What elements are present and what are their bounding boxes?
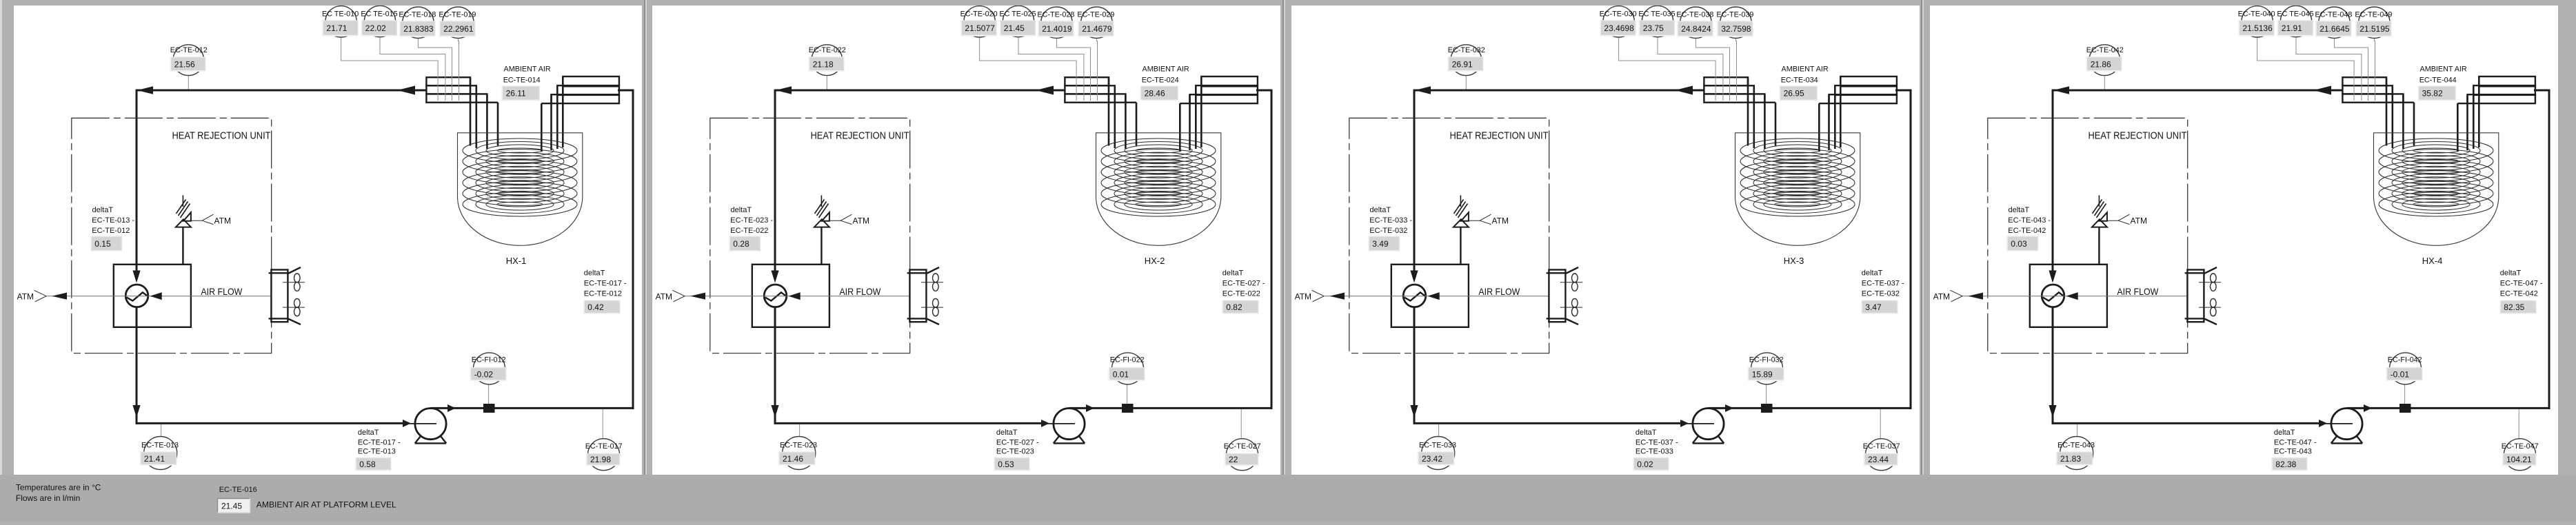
instrument bubble EC-TE-030 [1603, 6, 1634, 37]
panel 1: heat rejection unit HX-1 [14, 6, 642, 475]
svg-text:22: 22 [1229, 455, 1238, 464]
panel 3: heat rejection unit HX-3 [1291, 6, 1920, 475]
svg-text:EC TE-010: EC TE-010 [322, 10, 359, 19]
svg-text:26.91: 26.91 [1452, 59, 1473, 69]
svg-text:21.98: 21.98 [590, 455, 611, 464]
value box EC-FI-012 [470, 368, 506, 381]
svg-text:82.38: 82.38 [2275, 460, 2296, 469]
value box deltaT-right [1862, 301, 1898, 314]
svg-text:0.53: 0.53 [998, 460, 1014, 469]
value box EC-TE-029 [1078, 21, 1114, 37]
svg-text:3.49: 3.49 [1372, 239, 1389, 249]
svg-text:23.75: 23.75 [1643, 23, 1664, 33]
svg-text:EC-TE-012: EC-TE-012 [92, 227, 130, 235]
svg-text:ATM: ATM [2131, 216, 2147, 226]
svg-text:AMBIENT AIR: AMBIENT AIR [1782, 65, 1829, 73]
value box deltaT-left [91, 236, 122, 251]
instrument bubble EC-FI-022 [1112, 353, 1144, 384]
svg-text:EC-TE-020: EC-TE-020 [960, 10, 998, 19]
instrument bubble EC-TE-033 [1422, 437, 1455, 470]
svg-text:EC-TE-028: EC-TE-028 [1037, 11, 1074, 19]
instrument bubble EC-TE-039 [1720, 7, 1751, 38]
value box EC-TE-034 [1780, 86, 1817, 100]
svg-text:28.46: 28.46 [1145, 89, 1165, 99]
panel divider groove [1921, 0, 1922, 522]
svg-text:EC-TE-023 -: EC-TE-023 - [730, 216, 773, 225]
svg-text:15.89: 15.89 [1752, 369, 1773, 379]
instrument bubble EC-TE-047 [2504, 439, 2536, 471]
svg-text:deltaT: deltaT [1862, 269, 1883, 278]
svg-text:EC-FI-012: EC-FI-012 [472, 356, 506, 364]
value box EC-TE-012 [170, 57, 205, 71]
svg-text:EC-TE-032: EC-TE-032 [1369, 227, 1407, 235]
value box deltaT-right [1222, 301, 1258, 314]
svg-text:35.82: 35.82 [2422, 89, 2443, 99]
value box EC-FI-032 [1748, 368, 1784, 381]
svg-text:21.83: 21.83 [2060, 454, 2081, 464]
svg-text:21.56: 21.56 [174, 59, 195, 69]
value box EC TE-035 [1639, 21, 1674, 36]
value box EC-TE-027 [1225, 453, 1258, 465]
svg-text:21.4679: 21.4679 [1082, 24, 1112, 34]
instrument bubble EC-TE-049 [2359, 7, 2390, 38]
svg-text:AIR FLOW: AIR FLOW [839, 286, 881, 297]
svg-text:EC-TE-022: EC-TE-022 [730, 227, 768, 235]
value box deltaT-right [2500, 301, 2536, 314]
svg-text:21.45: 21.45 [221, 502, 242, 511]
svg-text:21.46: 21.46 [783, 454, 803, 464]
instrument bubble EC-TE-020 [964, 6, 995, 37]
svg-text:0.82: 0.82 [1226, 302, 1242, 312]
value box EC-TE-030 [1600, 21, 1636, 36]
value box EC TE-015 [361, 21, 396, 36]
svg-text:0.42: 0.42 [587, 302, 604, 312]
instrument bubble EC-TE-038 [1680, 7, 1711, 38]
svg-text:ATM: ATM [656, 291, 672, 301]
svg-text:EC-TE-013: EC-TE-013 [141, 442, 179, 450]
svg-text:21.86: 21.86 [2091, 59, 2111, 69]
panel 4: heat rejection unit HX-4 [1930, 6, 2558, 475]
value box EC-TE-017 [587, 453, 620, 465]
instrument bubble EC-TE-013 [144, 437, 177, 470]
svg-text:82.35: 82.35 [2504, 302, 2524, 312]
svg-text:23.4698: 23.4698 [1604, 23, 1634, 33]
value box EC-TE-037 [1864, 453, 1898, 465]
instrument bubble EC-TE-012 [173, 45, 204, 76]
svg-text:AIR FLOW: AIR FLOW [1478, 286, 1520, 297]
svg-text:HEAT REJECTION UNIT: HEAT REJECTION UNIT [2089, 130, 2187, 142]
svg-text:EC-TE-017 -: EC-TE-017 - [584, 280, 627, 288]
instrument bubble EC-TE-018 [403, 7, 434, 38]
svg-text:21.8383: 21.8383 [403, 24, 434, 34]
svg-text:-0.01: -0.01 [2391, 369, 2410, 379]
svg-text:0.03: 0.03 [2011, 239, 2027, 249]
svg-text:EC-TE-017 -: EC-TE-017 - [358, 438, 401, 446]
svg-text:EC-TE-034: EC-TE-034 [1781, 76, 1818, 84]
svg-text:HX-4: HX-4 [2422, 256, 2443, 266]
value box EC-TE-038 [1678, 21, 1713, 37]
svg-text:EC-TE-019: EC-TE-019 [439, 11, 476, 19]
svg-text:104.21: 104.21 [2506, 455, 2532, 464]
value box deltaT-bottom [356, 458, 391, 471]
svg-text:EC-TE-032: EC-TE-032 [1862, 290, 1900, 298]
svg-text:HX-2: HX-2 [1145, 256, 1165, 266]
svg-text:24.8424: 24.8424 [1681, 24, 1711, 34]
svg-text:EC-TE-014: EC-TE-014 [503, 76, 541, 84]
svg-text:deltaT: deltaT [584, 269, 605, 278]
instrument bubble EC-TE-022 [812, 45, 843, 76]
instrument bubble EC-TE-028 [1041, 7, 1072, 38]
value box EC-TE-044 [2418, 86, 2455, 100]
value box EC-TE-033 [1418, 452, 1454, 465]
svg-text:ATM: ATM [853, 216, 869, 226]
svg-text:21.5077: 21.5077 [965, 23, 995, 33]
svg-text:deltaT: deltaT [2500, 269, 2522, 278]
instrument bubble EC-TE-043 [2060, 437, 2093, 470]
svg-text:26.11: 26.11 [506, 89, 526, 99]
svg-text:EC-TE-038: EC-TE-038 [1676, 11, 1713, 19]
instrument bubble EC-TE-023 [783, 437, 816, 470]
svg-text:0.02: 0.02 [1637, 460, 1653, 469]
svg-text:EC-TE-039: EC-TE-039 [1716, 11, 1753, 19]
svg-text:EC TE-035: EC TE-035 [1638, 10, 1675, 19]
svg-text:22.2961: 22.2961 [443, 24, 474, 34]
svg-text:23.44: 23.44 [1868, 455, 1889, 464]
svg-text:EC-TE-027 -: EC-TE-027 - [1222, 280, 1265, 288]
svg-text:EC-TE-033 -: EC-TE-033 - [1369, 216, 1412, 225]
value box EC-TE-028 [1038, 21, 1074, 37]
svg-text:26.95: 26.95 [1784, 89, 1804, 99]
svg-text:0.28: 0.28 [733, 239, 749, 249]
svg-text:ATM: ATM [214, 216, 231, 226]
instrument bubble EC-TE-017 [588, 439, 620, 471]
value box deltaT-bottom [1633, 458, 1669, 471]
svg-text:21.5136: 21.5136 [2242, 23, 2273, 33]
svg-text:ATM: ATM [17, 291, 34, 301]
left window edge highlight [0, 0, 2, 522]
svg-text:EC-TE-013: EC-TE-013 [358, 448, 396, 456]
svg-text:HX-3: HX-3 [1784, 256, 1804, 266]
svg-text:HEAT REJECTION UNIT: HEAT REJECTION UNIT [811, 130, 909, 142]
svg-text:deltaT: deltaT [92, 206, 114, 214]
svg-text:HEAT REJECTION UNIT: HEAT REJECTION UNIT [172, 130, 271, 142]
svg-text:EC-TE-024: EC-TE-024 [1142, 76, 1179, 84]
svg-text:EC-TE-029: EC-TE-029 [1077, 11, 1114, 19]
value box EC TE-045 [2277, 21, 2313, 36]
svg-text:HEAT REJECTION UNIT: HEAT REJECTION UNIT [1450, 130, 1549, 142]
instrument bubble EC-TE-019 [443, 7, 474, 38]
instrument bubble EC-TE-042 [2089, 45, 2120, 76]
svg-text:23.42: 23.42 [1422, 454, 1442, 464]
svg-text:EC-TE-037 -: EC-TE-037 - [1862, 280, 1904, 288]
bottom note strip [0, 475, 2576, 522]
svg-text:AIR FLOW: AIR FLOW [2117, 286, 2159, 297]
svg-text:deltaT: deltaT [1222, 269, 1244, 278]
svg-text:EC-FI-022: EC-FI-022 [1110, 356, 1145, 364]
svg-text:3.47: 3.47 [1865, 302, 1882, 312]
value box EC-TE-039 [1718, 21, 1753, 37]
instrument bubble EC-FI-012 [474, 353, 505, 384]
instrument bubble EC TE-035 [1642, 6, 1673, 37]
svg-text:EC-TE-023: EC-TE-023 [996, 448, 1034, 456]
instrument bubble EC-TE-048 [2319, 7, 2350, 38]
svg-text:EC-TE-047 -: EC-TE-047 - [2274, 438, 2317, 446]
instrument bubble EC TE-010 [325, 6, 356, 37]
svg-text:EC TE-045: EC TE-045 [2277, 10, 2313, 19]
svg-text:EC-TE-023: EC-TE-023 [780, 442, 817, 450]
instrument bubble EC TE-015 [364, 6, 395, 37]
value box deltaT-right [584, 301, 620, 314]
svg-text:deltaT: deltaT [2274, 429, 2295, 437]
svg-text:32.7598: 32.7598 [1721, 24, 1751, 34]
value box EC-TE-047 [2503, 453, 2536, 465]
svg-text:AMBIENT AIR: AMBIENT AIR [504, 65, 551, 73]
svg-text:0.15: 0.15 [94, 239, 111, 249]
value box EC-TE-014 [502, 86, 539, 100]
svg-text:AIR FLOW: AIR FLOW [201, 286, 243, 297]
panel 2: heat rejection unit HX-2 [652, 6, 1280, 475]
svg-text:EC-TE-022: EC-TE-022 [1222, 290, 1260, 298]
svg-text:EC-TE-012: EC-TE-012 [584, 290, 622, 298]
svg-text:EC-FI-032: EC-FI-032 [1749, 356, 1784, 364]
value box EC-TE-020 [961, 21, 996, 36]
panel divider groove [1282, 0, 1284, 522]
value box EC-TE-043 [2057, 452, 2093, 465]
value box EC-TE-032 [1448, 57, 1483, 71]
instrument bubble EC-TE-032 [1451, 45, 1482, 76]
svg-text:0.58: 0.58 [359, 460, 376, 469]
svg-text:deltaT: deltaT [731, 206, 752, 214]
svg-text:EC-TE-037 -: EC-TE-037 - [1636, 438, 1678, 446]
instrument bubble EC-TE-040 [2242, 6, 2273, 37]
value box deltaT-bottom [994, 458, 1029, 471]
svg-text:EC-TE-043: EC-TE-043 [2057, 442, 2095, 450]
svg-text:EC-TE-018: EC-TE-018 [399, 11, 436, 19]
svg-text:EC-TE-043 -: EC-TE-043 - [2008, 216, 2051, 225]
svg-text:EC-TE-042: EC-TE-042 [2086, 46, 2124, 54]
svg-text:deltaT: deltaT [2009, 206, 2030, 214]
svg-text:AMBIENT AIR: AMBIENT AIR [1143, 65, 1189, 73]
svg-text:Temperatures are in °C: Temperatures are in °C [16, 483, 101, 493]
value box EC-TE-013 [141, 452, 177, 465]
svg-text:Flows are in l/min: Flows are in l/min [16, 493, 80, 503]
svg-text:ATM: ATM [1933, 291, 1950, 301]
svg-text:EC-TE-042: EC-TE-042 [2500, 290, 2538, 298]
svg-text:EC-TE-040: EC-TE-040 [2238, 10, 2275, 19]
value box EC-FI-042 [2386, 368, 2422, 381]
svg-text:EC-TE-017: EC-TE-017 [585, 442, 623, 451]
instrument bubble EC-FI-042 [2390, 353, 2422, 384]
svg-text:21.45: 21.45 [1004, 23, 1025, 33]
value box EC-TE-023 [779, 452, 815, 465]
value box EC TE-010 [323, 21, 358, 36]
svg-text:EC-TE-042: EC-TE-042 [2008, 227, 2046, 235]
svg-text:EC TE-025: EC TE-025 [999, 10, 1036, 19]
svg-text:EC TE-015: EC TE-015 [361, 10, 397, 19]
svg-text:22.02: 22.02 [365, 23, 386, 33]
svg-text:deltaT: deltaT [358, 429, 379, 437]
svg-text:EC-TE-044: EC-TE-044 [2419, 76, 2457, 84]
value box deltaT-bottom [2272, 458, 2307, 471]
svg-text:EC-TE-047: EC-TE-047 [2502, 442, 2539, 451]
svg-text:EC-TE-033: EC-TE-033 [1419, 442, 1456, 450]
value box EC-TE-022 [809, 57, 844, 71]
svg-text:EC-TE-013 -: EC-TE-013 - [92, 216, 134, 225]
svg-text:EC-TE-030: EC-TE-030 [1600, 10, 1637, 19]
svg-text:21.41: 21.41 [144, 454, 165, 464]
value box EC-TE-048 [2316, 21, 2351, 37]
value box EC-TE-049 [2356, 21, 2391, 37]
instrument bubble EC-TE-029 [1081, 7, 1112, 38]
svg-text:21.5195: 21.5195 [2359, 24, 2390, 34]
svg-text:ATM: ATM [1492, 216, 1509, 226]
svg-text:deltaT: deltaT [1636, 429, 1657, 437]
value box EC-TE-019 [440, 21, 475, 37]
svg-text:21.18: 21.18 [813, 59, 834, 69]
instrument bubble EC TE-045 [2280, 6, 2311, 37]
svg-text:deltaT: deltaT [1370, 206, 1391, 214]
svg-text:EC-TE-027 -: EC-TE-027 - [996, 438, 1039, 446]
instrument bubble EC-FI-032 [1751, 353, 1783, 384]
value box EC-TE-042 [2086, 57, 2122, 71]
value box EC-TE-016 [218, 499, 250, 513]
svg-text:ATM: ATM [1295, 291, 1311, 301]
instrument bubble EC-TE-037 [1866, 439, 1898, 471]
value box EC-TE-024 [1140, 86, 1178, 100]
svg-text:EC-TE-049: EC-TE-049 [2355, 11, 2392, 19]
instrument bubble EC TE-025 [1003, 6, 1034, 37]
svg-text:EC-TE-037: EC-TE-037 [1863, 442, 1900, 451]
svg-text:EC-TE-022: EC-TE-022 [809, 46, 846, 54]
svg-text:21.6645: 21.6645 [2320, 24, 2350, 34]
svg-text:21.4019: 21.4019 [1042, 24, 1072, 34]
value box EC-TE-018 [400, 21, 435, 37]
svg-text:HX-1: HX-1 [506, 256, 527, 266]
svg-text:EC-TE-043: EC-TE-043 [2274, 448, 2312, 456]
svg-text:EC-TE-012: EC-TE-012 [170, 46, 208, 54]
svg-text:EC-TE-033: EC-TE-033 [1636, 448, 1673, 456]
value box deltaT-left [729, 236, 761, 251]
value box deltaT-left [2007, 236, 2038, 251]
svg-text:EC-TE-048: EC-TE-048 [2315, 11, 2352, 19]
svg-text:21.91: 21.91 [2282, 23, 2302, 33]
value box EC-TE-040 [2239, 21, 2274, 36]
panel divider groove [644, 0, 645, 522]
svg-text:deltaT: deltaT [996, 429, 1018, 437]
svg-text:AMBIENT AIR: AMBIENT AIR [2420, 65, 2467, 73]
value box EC-FI-022 [1109, 368, 1145, 381]
svg-text:EC-TE-027: EC-TE-027 [1224, 442, 1261, 451]
svg-text:-0.02: -0.02 [474, 369, 494, 379]
value box EC TE-025 [1000, 21, 1035, 36]
instrument bubble EC-TE-027 [1227, 439, 1258, 471]
svg-text:21.71: 21.71 [326, 23, 347, 33]
svg-text:EC-TE-032: EC-TE-032 [1448, 46, 1485, 54]
svg-text:0.01: 0.01 [1113, 369, 1129, 379]
value box deltaT-left [1369, 236, 1400, 251]
svg-text:EC-FI-042: EC-FI-042 [2388, 356, 2422, 364]
svg-text:EC-TE-047 -: EC-TE-047 - [2500, 280, 2543, 288]
svg-text:EC-TE-016: EC-TE-016 [219, 486, 257, 494]
svg-text:AMBIENT AIR AT PLATFORM LEVEL: AMBIENT AIR AT PLATFORM LEVEL [256, 500, 396, 510]
